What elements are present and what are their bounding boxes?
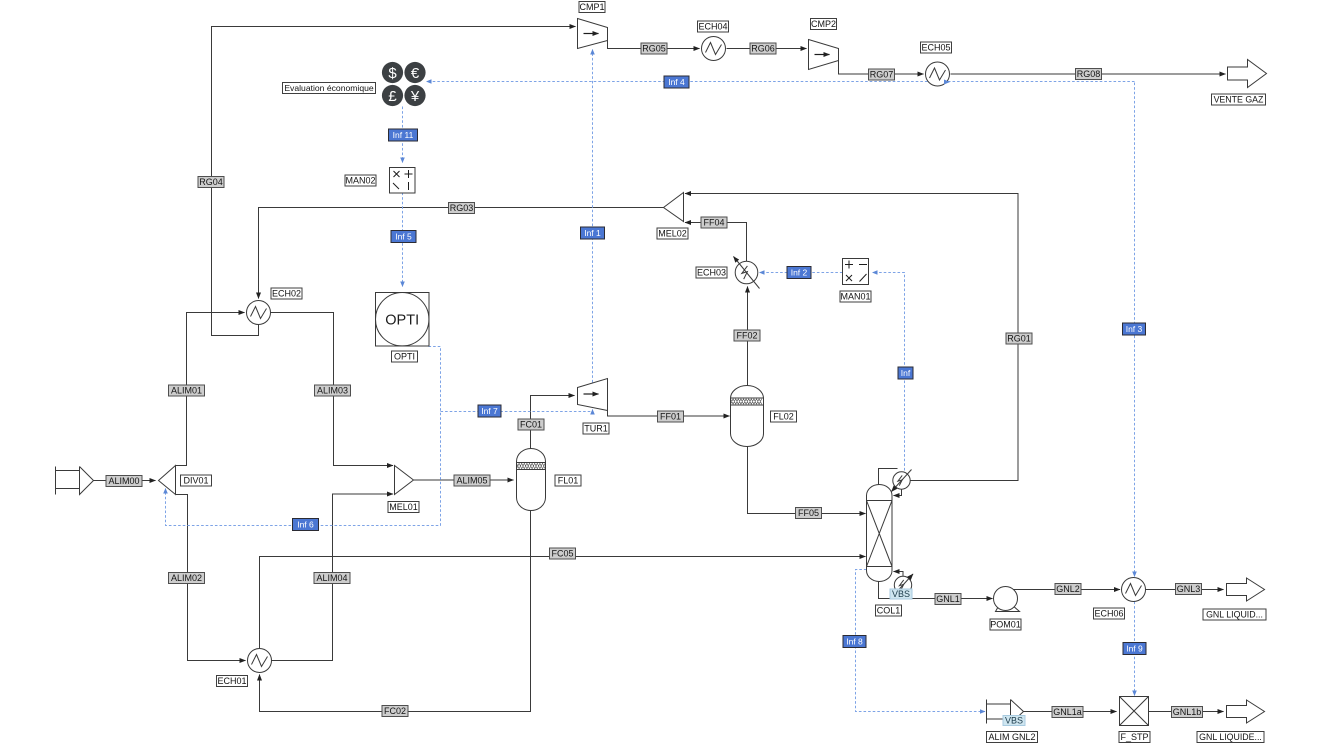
svg-text:RG07: RG07 [870, 70, 894, 80]
svg-text:TUR1: TUR1 [584, 424, 608, 434]
svg-text:ALIM00: ALIM00 [108, 476, 139, 486]
svg-text:Inf 6: Inf 6 [297, 520, 314, 530]
svg-text:GNL LIQUID...: GNL LIQUID... [1206, 610, 1263, 620]
svg-text:RG08: RG08 [1077, 69, 1101, 79]
svg-text:CMP1: CMP1 [579, 2, 604, 12]
svg-text:ECH06: ECH06 [1094, 609, 1123, 619]
svg-text:POM01: POM01 [990, 620, 1021, 630]
svg-text:Inf 1: Inf 1 [584, 228, 601, 238]
svg-text:GNL1b: GNL1b [1173, 707, 1202, 717]
svg-text:ECH04: ECH04 [698, 22, 727, 32]
svg-text:DIV01: DIV01 [183, 476, 208, 486]
svg-text:¥: ¥ [410, 88, 420, 105]
svg-text:FF02: FF02 [736, 331, 757, 341]
svg-text:Inf 7: Inf 7 [481, 406, 498, 416]
svg-text:Inf 3: Inf 3 [1126, 324, 1143, 334]
svg-text:RG01: RG01 [1007, 334, 1031, 344]
svg-text:FL02: FL02 [773, 412, 794, 422]
svg-text:FF04: FF04 [703, 218, 724, 228]
svg-text:VENTE GAZ: VENTE GAZ [1214, 95, 1264, 105]
svg-text:ALIM05: ALIM05 [456, 476, 487, 486]
svg-text:£: £ [388, 88, 397, 105]
svg-text:ALIM04: ALIM04 [316, 573, 347, 583]
svg-text:Inf 4: Inf 4 [668, 77, 685, 87]
svg-text:Inf 11: Inf 11 [393, 130, 414, 140]
svg-text:ALIM03: ALIM03 [317, 386, 348, 396]
svg-text:RG05: RG05 [642, 44, 666, 54]
svg-text:MEL02: MEL02 [658, 229, 687, 239]
svg-text:GNL2: GNL2 [1056, 584, 1080, 594]
svg-text:FL01: FL01 [558, 476, 579, 486]
svg-text:ALIM02: ALIM02 [171, 573, 202, 583]
svg-text:ECH05: ECH05 [921, 43, 950, 53]
svg-text:FC05: FC05 [551, 549, 573, 559]
svg-text:ECH03: ECH03 [697, 268, 726, 278]
svg-text:GNL1: GNL1 [936, 594, 960, 604]
svg-text:COL1: COL1 [877, 606, 901, 616]
svg-text:Evaluation économique: Evaluation économique [284, 83, 374, 93]
svg-text:FC02: FC02 [384, 706, 406, 716]
svg-text:ECH01: ECH01 [217, 676, 246, 686]
svg-text:$: $ [388, 65, 397, 82]
svg-text:FF01: FF01 [660, 412, 681, 422]
svg-text:VBS: VBS [892, 589, 910, 599]
svg-text:OPTI: OPTI [394, 352, 415, 362]
svg-text:RG03: RG03 [450, 203, 474, 213]
svg-text:ALIM01: ALIM01 [171, 386, 202, 396]
svg-text:MAN02: MAN02 [345, 176, 375, 186]
svg-text:Inf: Inf [901, 368, 911, 378]
svg-text:GNL3: GNL3 [1177, 584, 1201, 594]
svg-text:FF05: FF05 [798, 508, 819, 518]
svg-text:Inf 9: Inf 9 [1126, 644, 1143, 654]
svg-text:GNL1a: GNL1a [1053, 707, 1082, 717]
svg-text:ALIM GNL2: ALIM GNL2 [988, 732, 1035, 742]
svg-text:RG06: RG06 [751, 44, 775, 54]
svg-text:€: € [411, 65, 420, 82]
svg-text:CMP2: CMP2 [811, 19, 836, 29]
svg-text:Inf 2: Inf 2 [791, 268, 808, 278]
svg-text:MAN01: MAN01 [840, 292, 870, 302]
svg-text:Inf 5: Inf 5 [395, 232, 412, 242]
svg-text:Inf 8: Inf 8 [846, 637, 863, 647]
svg-text:F_STP: F_STP [1120, 732, 1148, 742]
svg-text:RG04: RG04 [199, 177, 223, 187]
svg-text:MEL01: MEL01 [389, 502, 418, 512]
svg-text:ECH02: ECH02 [272, 289, 301, 299]
svg-text:GNL LIQUIDE...: GNL LIQUIDE... [1199, 732, 1262, 742]
svg-text:OPTI: OPTI [385, 313, 419, 329]
svg-text:FC01: FC01 [520, 420, 542, 430]
svg-text:VBS: VBS [1005, 716, 1023, 726]
